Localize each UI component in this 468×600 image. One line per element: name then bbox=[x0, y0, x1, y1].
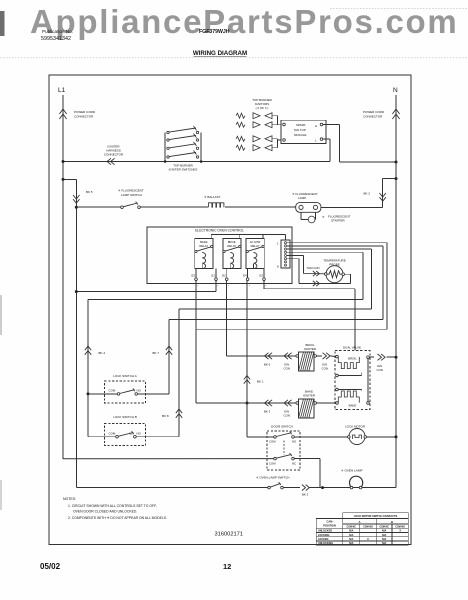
svg-text:E2: E2 bbox=[260, 274, 264, 278]
svg-text:N/A: N/A bbox=[382, 530, 387, 533]
svg-text:8: 8 bbox=[277, 265, 279, 269]
svg-text:DOOR SWITCH: DOOR SWITCH bbox=[271, 424, 293, 428]
svg-text:LOCK SWITCH A: LOCK SWITCH A bbox=[113, 374, 137, 378]
svg-text:UNLOCKING: UNLOCKING bbox=[318, 542, 333, 545]
svg-text:N/A: N/A bbox=[382, 542, 387, 545]
svg-text:N/A: N/A bbox=[349, 542, 354, 545]
svg-text:E4: E4 bbox=[243, 274, 247, 278]
svg-text:▪: ▪ bbox=[218, 286, 219, 288]
svg-text:NO: NO bbox=[292, 440, 297, 444]
svg-text:LOCK MOTOR: LOCK MOTOR bbox=[345, 424, 366, 428]
svg-text:✳ OVEN LAMP SWITCH: ✳ OVEN LAMP SWITCH bbox=[256, 476, 289, 480]
svg-text:✳: ✳ bbox=[322, 215, 325, 219]
svg-text:COM: COM bbox=[269, 440, 276, 444]
svg-text:DUAL VALVE: DUAL VALVE bbox=[343, 346, 361, 350]
svg-text:UNLOCKED: UNLOCKED bbox=[318, 530, 332, 533]
svg-text:LOCKING: LOCKING bbox=[318, 534, 330, 537]
svg-text:NC: NC bbox=[292, 461, 296, 465]
svg-text:LOCK MOTOR SWITCH CONTACTS: LOCK MOTOR SWITCH CONTACTS bbox=[354, 514, 398, 518]
svg-text:BK 5: BK 5 bbox=[86, 190, 93, 194]
svg-text:IGN TOP: IGN TOP bbox=[294, 128, 306, 132]
svg-text:316002171: 316002171 bbox=[215, 532, 243, 538]
svg-text:NO: NO bbox=[137, 431, 142, 435]
svg-text:NOTES:: NOTES: bbox=[63, 497, 76, 501]
svg-text:BAKE: BAKE bbox=[349, 404, 357, 408]
svg-text:IGNITER SWITCHES: IGNITER SWITCHES bbox=[169, 168, 198, 172]
svg-text:✳ OVEN LAMP: ✳ OVEN LAMP bbox=[341, 469, 363, 473]
svg-text:OVEN DOOR CLOSED AND UNLOCKED.: OVEN DOOR CLOSED AND UNLOCKED. bbox=[73, 510, 137, 514]
svg-text:CON: CON bbox=[284, 367, 290, 371]
svg-text:SPARK: SPARK bbox=[296, 123, 306, 127]
svg-text:CON: CON bbox=[284, 414, 290, 418]
svg-text:▪: ▪ bbox=[266, 286, 267, 288]
svg-text:BK 7: BK 7 bbox=[153, 351, 160, 355]
svg-text:NO: NO bbox=[137, 389, 142, 393]
svg-text:IGNITER: IGNITER bbox=[304, 347, 317, 351]
svg-text:▪: ▪ bbox=[228, 286, 229, 288]
svg-text:BK 8: BK 8 bbox=[162, 414, 169, 418]
svg-text:COM: COM bbox=[269, 461, 276, 465]
svg-text:H: H bbox=[315, 124, 317, 128]
svg-text:LOCKED: LOCKED bbox=[318, 538, 329, 541]
svg-text:BROIL: BROIL bbox=[348, 357, 357, 361]
svg-text:CON: CON bbox=[377, 368, 383, 372]
svg-text:RELAY: RELAY bbox=[227, 244, 236, 248]
svg-text:COM: COM bbox=[109, 431, 116, 435]
svg-text:BK 1: BK 1 bbox=[257, 380, 264, 384]
svg-text:✳ BALLAST: ✳ BALLAST bbox=[204, 195, 221, 199]
svg-text:POWER CORD: POWER CORD bbox=[363, 110, 385, 114]
svg-text:N/A: N/A bbox=[349, 538, 354, 541]
svg-text:N/A: N/A bbox=[382, 538, 387, 541]
svg-text:( 2 OF 4 ): ( 2 OF 4 ) bbox=[256, 106, 269, 110]
svg-text:E3: E3 bbox=[192, 274, 196, 278]
svg-text:ELECTRONIC OVEN CONTROL: ELECTRONIC OVEN CONTROL bbox=[195, 229, 244, 233]
svg-text:LAMP SWITCH: LAMP SWITCH bbox=[121, 193, 142, 197]
svg-text:WIRING DIAGRAM: WIRING DIAGRAM bbox=[193, 50, 247, 57]
svg-text:A: A bbox=[358, 520, 360, 524]
svg-text:LAMP: LAMP bbox=[298, 196, 306, 200]
svg-text:✳ FLUORESCENT: ✳ FLUORESCENT bbox=[118, 189, 144, 193]
svg-text:N/A: N/A bbox=[382, 534, 387, 537]
svg-text:BK 4: BK 4 bbox=[99, 351, 106, 355]
svg-text:STARTER: STARTER bbox=[331, 219, 346, 223]
svg-text:COM: COM bbox=[109, 389, 116, 393]
svg-text:B: B bbox=[391, 520, 393, 524]
svg-text:CONNECTOR: CONNECTOR bbox=[74, 115, 94, 119]
svg-text:E2: E2 bbox=[222, 274, 226, 278]
svg-text:BK 2: BK 2 bbox=[364, 192, 371, 196]
svg-text:BK 6: BK 6 bbox=[264, 363, 271, 367]
svg-text:N: N bbox=[393, 87, 398, 94]
svg-text:1: 1 bbox=[277, 242, 279, 246]
svg-text:E1: E1 bbox=[212, 274, 216, 278]
svg-text:▪: ▪ bbox=[198, 286, 199, 288]
svg-text:N/A: N/A bbox=[349, 534, 354, 537]
svg-text:L1: L1 bbox=[58, 87, 66, 94]
svg-text:CONNECTOR: CONNECTOR bbox=[104, 153, 124, 157]
svg-text:IGNITER: IGNITER bbox=[303, 394, 316, 398]
svg-text:BK 3: BK 3 bbox=[264, 410, 271, 414]
svg-text:2. COMPONENTS WITH ✳ DO NOT A: 2. COMPONENTS WITH ✳ DO NOT APPEAR ON AL… bbox=[68, 516, 167, 520]
svg-text:1. CIRCUIT SHOWN WITH ALL CON: 1. CIRCUIT SHOWN WITH ALL CONTROLS SET T… bbox=[68, 504, 157, 508]
svg-text:RELAY: RELAY bbox=[251, 244, 260, 248]
svg-text:N/A: N/A bbox=[349, 530, 354, 533]
svg-text:RELAY: RELAY bbox=[199, 244, 208, 248]
svg-text:THM CON: THM CON bbox=[307, 266, 320, 270]
svg-text:CONNECTOR: CONNECTOR bbox=[363, 115, 383, 119]
svg-text:CON: CON bbox=[322, 367, 328, 371]
svg-text:POWER CORD: POWER CORD bbox=[74, 110, 96, 114]
svg-text:POSITION: POSITION bbox=[323, 523, 336, 527]
svg-text:BK 3: BK 3 bbox=[302, 492, 309, 496]
svg-text:CAM: CAM bbox=[327, 520, 333, 524]
svg-text:L: L bbox=[315, 139, 317, 143]
svg-text:LOCK SWITCH B: LOCK SWITCH B bbox=[113, 415, 137, 419]
svg-text:MODULE: MODULE bbox=[294, 133, 306, 137]
svg-text:▪: ▪ bbox=[249, 286, 250, 288]
